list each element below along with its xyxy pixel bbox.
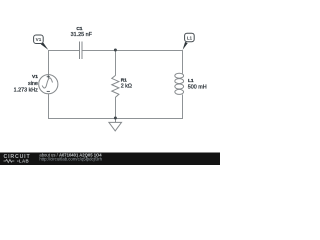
V1 plus sign (47, 75, 50, 91)
wire left branch upper (48, 50, 50, 75)
svg-text:31.25 nF: 31.25 nF (71, 32, 93, 38)
resistor R1 (112, 75, 119, 97)
logo zigzag (4, 159, 15, 162)
wire right branch lower (182, 94, 184, 118)
voltage source V1 (39, 75, 58, 94)
wire top-left segment (48, 50, 79, 52)
svg-text:500 mH: 500 mH (188, 84, 207, 90)
node tag V1 pointer (41, 42, 49, 50)
wire right branch upper (182, 50, 184, 74)
node junction dot bottom (114, 117, 117, 120)
ground (109, 118, 122, 131)
node junction dot top (114, 49, 117, 52)
svg-text:L1: L1 (188, 78, 194, 84)
svg-text:1.273 kHz: 1.273 kHz (14, 87, 39, 93)
svg-text:sine: sine (28, 81, 38, 87)
wire bottom (48, 118, 183, 120)
svg-text:http://circuitlab.com/c/q5lpdc: http://circuitlab.com/c/q5lpdcjf3rh (39, 156, 102, 161)
node tag L1 box (185, 33, 195, 42)
svg-text:L1: L1 (187, 35, 193, 40)
svg-text:V1: V1 (36, 37, 42, 42)
svg-text:V1: V1 (32, 74, 38, 80)
inductor L1 (175, 73, 184, 94)
node tag V1 box (34, 35, 44, 44)
svg-text:2 kΩ: 2 kΩ (121, 84, 132, 90)
wire left branch lower (48, 94, 50, 119)
wire top-right segment (82, 50, 183, 52)
node tag L1 pointer (183, 42, 188, 50)
watermark bar (0, 153, 220, 166)
wire middle branch upper (115, 50, 117, 75)
capacitor C1 (80, 42, 83, 59)
svg-text:▪LAB: ▪LAB (17, 158, 29, 163)
wire middle branch lower (115, 97, 117, 118)
V1 minus sign (47, 90, 50, 92)
